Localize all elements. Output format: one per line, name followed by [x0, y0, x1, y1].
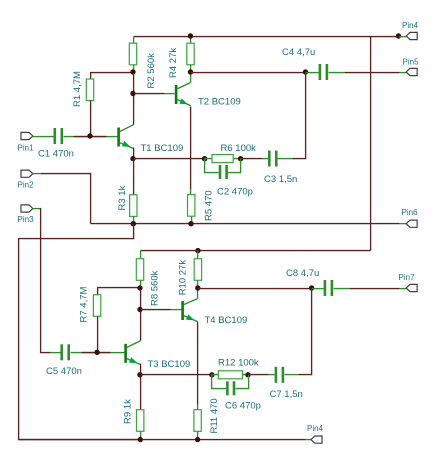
label T1 BC109: [141, 143, 184, 154]
capacitor C7 lead left: [269, 374, 275, 376]
capacitor C2 lead right: [228, 159, 241, 173]
capacitor C3: [268, 151, 278, 167]
resistor R6 lead right: [234, 158, 241, 160]
label R7 4,7M: [79, 287, 90, 323]
resistor R4 lead top: [190, 37, 192, 44]
svg-text:Pin4: Pin4: [402, 21, 419, 30]
label R4 27k: [168, 48, 179, 78]
capacitor C2 lead left: [205, 159, 219, 173]
svg-text:R9 1k: R9 1k: [123, 399, 134, 424]
capacitor C5 lead left: [51, 352, 61, 354]
wire T4 collector up: [197, 289, 199, 299]
node T3 emitter junction: [137, 372, 142, 377]
resistor R12 lead left: [212, 374, 219, 376]
wire base node segment: [74, 136, 107, 138]
resistor R9: [137, 410, 144, 432]
resistor R4: [187, 43, 194, 65]
resistor R9 lead bottom: [140, 432, 142, 440]
resistor R10 lead top: [197, 251, 199, 259]
resistor R10: [194, 259, 201, 281]
node R9 ground junction: [138, 437, 143, 442]
label C2 470p: [217, 187, 253, 198]
wire top supply rail: [134, 36, 399, 38]
wire C4 to Pin5: [345, 72, 400, 74]
connector Pin5: [406, 68, 417, 75]
svg-text:R7 4,7M: R7 4,7M: [79, 287, 90, 323]
wire T1 emitter down: [133, 148, 135, 159]
wire T3 base lead: [111, 352, 125, 354]
wire ground link to channel 2: [19, 224, 141, 440]
resistor R12: [218, 371, 242, 379]
connector Pin7: [406, 284, 417, 291]
wire collector to C8 node: [198, 288, 312, 290]
wire collector to C4 node: [191, 72, 306, 74]
label T2 BC109: [198, 97, 241, 108]
wire feedback up to C4 node: [293, 73, 306, 159]
svg-text:R10 27k: R10 27k: [177, 260, 188, 296]
transistor T1: [117, 125, 133, 149]
resistor R5: [188, 195, 195, 217]
resistor R4 lead bottom: [190, 65, 192, 73]
capacitor C4: [319, 64, 329, 80]
wire R12 to C7: [249, 374, 269, 376]
node R10 top junction: [195, 248, 200, 253]
svg-text:R3 1k: R3 1k: [117, 185, 128, 210]
svg-text:Pin7: Pin7: [399, 273, 416, 282]
wire T4 base lead: [171, 309, 182, 311]
wire T1 base lead: [107, 136, 118, 138]
wire T4 emitter down to R11: [197, 322, 199, 405]
wire ground rail channel 1: [91, 223, 400, 225]
resistor R7: [93, 295, 100, 317]
node R12 left junction: [209, 372, 214, 377]
wire Pin3 down to C5: [40, 209, 51, 353]
resistor R3 lead bottom: [133, 217, 135, 224]
node R7 bottom junction: [94, 350, 99, 355]
wire T3 emitter to R9: [140, 375, 142, 410]
node R11 ground junction: [195, 437, 200, 442]
connector Pin6: [406, 220, 417, 227]
node T1 collector / T2 base junction: [130, 91, 135, 96]
svg-text:C3 1,5n: C3 1,5n: [264, 174, 297, 185]
node R12 right junction: [245, 372, 250, 377]
label R8 560k: [150, 270, 161, 306]
svg-text:R4 27k: R4 27k: [168, 48, 179, 78]
label R6 100k: [221, 143, 257, 154]
label Pin4: [402, 21, 419, 30]
svg-text:C5 470n: C5 470n: [46, 366, 82, 377]
wire T2 base: [134, 93, 165, 95]
connector Pin2: [21, 170, 33, 177]
capacitor C3 lead right: [278, 158, 293, 160]
label C3 1,5n: [264, 174, 297, 185]
svg-text:R6 100k: R6 100k: [221, 143, 257, 154]
label Pin1: [18, 143, 35, 152]
node R3 ground junction: [131, 221, 136, 226]
node T1 emitter junction: [130, 156, 135, 161]
resistor R8 lead top: [140, 251, 142, 259]
label Pin2: [18, 181, 35, 190]
wire emitter to R12: [141, 374, 212, 376]
wire T4 base: [141, 309, 171, 311]
label R11 470: [209, 398, 220, 433]
label Pin7: [399, 273, 416, 282]
label R1 4,7M: [72, 71, 83, 107]
transistor T4: [181, 299, 197, 322]
connector Pin4 bottom: [311, 436, 322, 443]
label R3 1k: [117, 185, 128, 210]
capacitor C7 lead right: [285, 374, 299, 376]
label T4 BC109: [205, 315, 248, 326]
wire Pin2 leg: [33, 173, 41, 175]
wire T1 collector up: [133, 73, 135, 125]
node R4 top junction: [188, 33, 193, 38]
node T2 collector junction: [188, 69, 193, 74]
wire C8 right lead: [334, 288, 350, 290]
wire supply rail channel 2: [141, 250, 371, 252]
wire ground rail channel 2: [19, 439, 306, 441]
resistor R5 lead top: [190, 190, 192, 195]
svg-text:C7 1,5n: C7 1,5n: [270, 389, 303, 400]
resistor R8 lead bottom: [140, 281, 142, 289]
svg-text:R12 100k: R12 100k: [218, 357, 259, 368]
node R6 left junction: [202, 156, 207, 161]
wire C5 to T3 base: [71, 352, 111, 354]
wire feedback up to C8 node: [299, 289, 312, 375]
resistor R2 lead top: [133, 37, 135, 44]
wire C4 left lead: [306, 72, 319, 74]
label R2 560k: [146, 53, 157, 89]
node collector-R1 junction: [130, 69, 135, 74]
connector Pin1: [21, 132, 33, 139]
capacitor C7: [275, 367, 285, 383]
wire emitter to R6: [134, 158, 205, 160]
svg-text:Pin1: Pin1: [18, 143, 35, 152]
label C4 4,7u: [282, 47, 315, 58]
capacitor C1: [54, 128, 64, 144]
capacitor C8: [324, 280, 334, 296]
capacitor C3 lead left: [263, 158, 269, 160]
wire Pin4 bottom leg: [306, 439, 312, 441]
label T3 BC109: [148, 359, 191, 370]
resistor R11 lead bottom: [197, 432, 199, 440]
label R10 27k: [177, 260, 188, 296]
wire Pin4 leg: [399, 36, 407, 38]
capacitor C6: [226, 381, 235, 395]
wire supply drop to channel 2: [370, 37, 372, 251]
node C8 left junction: [309, 285, 314, 290]
resistor R3: [130, 195, 137, 217]
resistor R2 lead bottom: [133, 65, 135, 73]
wire T1 emitter to R3: [133, 159, 135, 195]
label C7 1,5n: [270, 389, 303, 400]
svg-text:T1 BC109: T1 BC109: [141, 143, 184, 154]
svg-text:Pin5: Pin5: [403, 58, 420, 67]
wire Pin6 leg: [400, 223, 407, 225]
svg-text:Pin6: Pin6: [402, 208, 419, 217]
resistor R10 lead bottom: [197, 281, 199, 289]
svg-text:T3 BC109: T3 BC109: [148, 359, 191, 370]
wire R6 to C3: [241, 158, 263, 160]
wire base node segment 2: [82, 352, 111, 354]
svg-text:T2 BC109: T2 BC109: [198, 97, 241, 108]
wire R1 top to collector node: [91, 73, 134, 80]
node Pin4 junction: [396, 33, 401, 38]
transistor T3: [124, 341, 140, 365]
label R5 470: [204, 190, 215, 221]
capacitor C6 lead right: [236, 375, 249, 389]
svg-text:Pin2: Pin2: [18, 181, 35, 190]
wire T3 emitter down: [140, 364, 142, 375]
resistor R11: [194, 410, 201, 432]
node R6 right junction: [238, 156, 243, 161]
resistor R11 lead top: [197, 405, 199, 410]
node R8 bottom junction: [137, 285, 142, 290]
label C6 470p: [225, 400, 261, 411]
svg-text:C8 4,7u: C8 4,7u: [286, 268, 319, 279]
svg-text:C6 470p: C6 470p: [225, 400, 261, 411]
node C4 left junction: [303, 69, 308, 74]
resistor R1: [86, 79, 93, 101]
resistor R5 lead bottom: [191, 217, 193, 224]
wire Pin7 leg: [400, 288, 407, 290]
wire C8 left lead: [312, 288, 324, 290]
connector Pin4: [406, 32, 417, 39]
capacitor C2: [219, 165, 228, 179]
wire Pin1 to C1: [33, 136, 54, 138]
node T3 collector / T4 base junction: [137, 307, 142, 312]
capacitor C5: [60, 344, 70, 360]
svg-text:R2 560k: R2 560k: [146, 53, 157, 89]
node R5 ground junction: [188, 221, 193, 226]
svg-text:R5 470: R5 470: [204, 190, 215, 221]
capacitor C6 lead left: [212, 375, 227, 389]
wire T2 emitter down to R5: [190, 107, 192, 190]
wire Pin2 to ground rail: [41, 174, 91, 224]
resistor R8: [136, 259, 143, 281]
label Pin5: [403, 58, 420, 67]
label Pin6: [402, 208, 419, 217]
wire C1 to T1 base: [64, 136, 107, 138]
label R12 100k: [218, 357, 259, 368]
svg-text:R11 470: R11 470: [209, 398, 220, 433]
node R1 bottom junction: [87, 133, 92, 138]
svg-text:Pin3: Pin3: [18, 215, 35, 224]
label C1 470n: [38, 149, 74, 160]
svg-text:R1 4,7M: R1 4,7M: [72, 71, 83, 107]
resistor R6 lead left: [205, 158, 213, 160]
svg-text:C2 470p: C2 470p: [217, 187, 253, 198]
resistor R2: [129, 43, 136, 65]
wire Pin3 leg: [33, 208, 40, 210]
wire T2 base lead: [165, 93, 175, 95]
wire R1 bottom to base node: [90, 101, 92, 137]
svg-text:T4 BC109: T4 BC109: [205, 315, 248, 326]
transistor T2: [175, 83, 191, 106]
svg-text:R8 560k: R8 560k: [150, 270, 161, 306]
svg-text:C1 470n: C1 470n: [38, 149, 74, 160]
resistor R6: [212, 155, 233, 163]
label Pin3: [18, 215, 35, 224]
wire R7 top to collector node: [98, 288, 141, 295]
connector Pin3: [21, 205, 33, 212]
svg-text:Pin4: Pin4: [307, 424, 324, 433]
label C8 4,7u: [286, 268, 319, 279]
node T4 collector junction: [195, 285, 200, 290]
wire R7 bottom to base node: [97, 317, 99, 353]
label R9 1k: [123, 399, 134, 424]
wire C8 to Pin7: [350, 288, 400, 290]
label C5 470n: [46, 366, 82, 377]
resistor R12 lead right: [243, 374, 249, 376]
svg-text:C4 4,7u: C4 4,7u: [282, 47, 315, 58]
wire Pin5 leg: [400, 72, 407, 74]
wire T3 collector up: [140, 289, 142, 341]
wire C4 right lead: [329, 72, 345, 74]
label Pin4 bottom: [307, 424, 324, 433]
wire T2 collector up: [190, 73, 192, 83]
